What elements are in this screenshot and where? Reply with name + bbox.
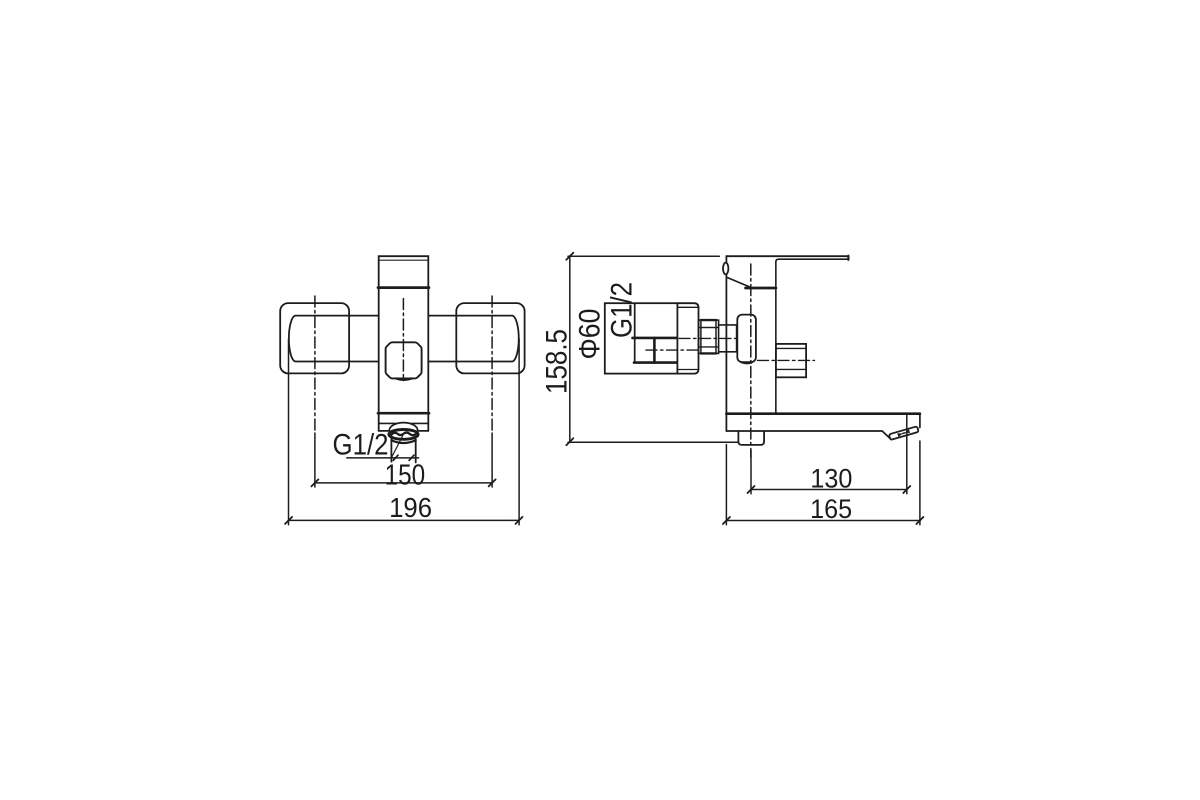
svg-text:158.5: 158.5 [541, 329, 574, 394]
body centerline (side view) [750, 264, 752, 457]
under-body tab [738, 431, 764, 445]
left inlet arm [289, 316, 379, 362]
spout top thick line [726, 412, 920, 415]
svg-text:165: 165 [810, 494, 852, 524]
G1/2 leader tick b [409, 455, 414, 460]
nipple thread crest top [701, 319, 716, 321]
tick 150 right [489, 479, 496, 486]
aerator dome [389, 423, 417, 431]
union thick top line [633, 337, 677, 340]
escutcheon left flange [280, 303, 349, 373]
connector piece [719, 325, 737, 352]
dim line 150 [315, 482, 492, 484]
body lower line [379, 422, 429, 424]
svg-text:150: 150 [385, 459, 426, 491]
extension top (lever level) [568, 255, 719, 257]
aerator mesh wave [392, 433, 416, 436]
boss bottom dark arc [742, 361, 752, 364]
right inlet arm [428, 316, 518, 362]
dim 158.5 vertical line [569, 256, 571, 442]
tick 158.5 bottom [566, 438, 573, 445]
dim 130 extension left [750, 450, 752, 494]
spout tip right edge [919, 414, 921, 428]
lever top line [726, 255, 848, 257]
union thick bottom line [634, 361, 677, 364]
wall escutcheon disc [677, 303, 698, 373]
body cap bottom thick line [378, 286, 429, 289]
svg-text:G1/2: G1/2 [605, 282, 638, 338]
lever base thick line [746, 287, 776, 290]
spout underside [726, 430, 882, 432]
G1/2 leader slant [392, 436, 403, 458]
G1/2 leader tick a [393, 455, 398, 460]
lever front ball end [723, 263, 728, 275]
aerator lower arc [391, 440, 415, 443]
escutcheon right flange [456, 303, 524, 373]
escutcheon inner line bottom [677, 369, 698, 371]
dim 165 extension left [725, 445, 727, 525]
svg-text:196: 196 [389, 492, 432, 523]
mouth mesh mark [897, 429, 910, 437]
svg-text:130: 130 [810, 464, 852, 494]
body right edge + lever bar underside [776, 259, 849, 414]
body top cap [379, 256, 429, 287]
body centerline [402, 299, 404, 380]
body sides [378, 288, 380, 431]
svg-text:Φ60: Φ60 [574, 309, 607, 360]
tick 196 right [516, 517, 523, 524]
union thick vertical [653, 338, 656, 363]
dim line 196 [289, 519, 519, 521]
tick 130 right [903, 486, 910, 493]
escutcheon inner line top [677, 306, 698, 308]
body bottom edge [379, 430, 429, 432]
extension lines 196 [288, 339, 290, 525]
knob inner lines [776, 347, 806, 349]
aerator cylinder sides [390, 439, 392, 462]
knob axis [758, 359, 815, 361]
body bottom thick line [378, 412, 429, 415]
body left edge [725, 256, 727, 431]
lever bar tip end [847, 256, 849, 260]
dim 165 extension right [919, 441, 921, 525]
spout underside slant to mouth [882, 431, 891, 440]
handle bottom dark arc [397, 379, 412, 380]
lever underside slant [728, 278, 750, 287]
tick 130 left [748, 486, 755, 493]
dim line 165 [726, 520, 920, 522]
dim 130 extension right [906, 415, 908, 494]
nipple inner lines [699, 327, 719, 329]
G1/2 leader line [347, 457, 419, 459]
aerator ellipse ring [389, 430, 418, 440]
body top inner line [379, 259, 429, 261]
nipple thread verticals [700, 320, 702, 353]
union inner vertical [634, 303, 636, 362]
dim line 130 [751, 489, 907, 491]
tick 150 left [311, 479, 318, 486]
thread nipple G1/2 [699, 320, 719, 353]
extension bottom (spout level) [568, 441, 738, 443]
inlet axis [679, 337, 749, 339]
tick 165 right [916, 517, 923, 524]
spout mouth piece [889, 426, 919, 440]
centerline / extension left inlet [314, 296, 316, 433]
union wall axis [646, 349, 699, 351]
side knob [776, 344, 806, 377]
handle front plate [386, 342, 422, 378]
nipple thread crest bottom [701, 352, 716, 354]
inlet boss profile [737, 315, 756, 363]
tick 158.5 top [566, 253, 573, 260]
tick 165 left [723, 517, 730, 524]
tick 196 left [285, 517, 292, 524]
centerline / extension right inlet [491, 296, 493, 433]
svg-text:G1/2: G1/2 [333, 429, 389, 462]
union big box [605, 303, 678, 373]
